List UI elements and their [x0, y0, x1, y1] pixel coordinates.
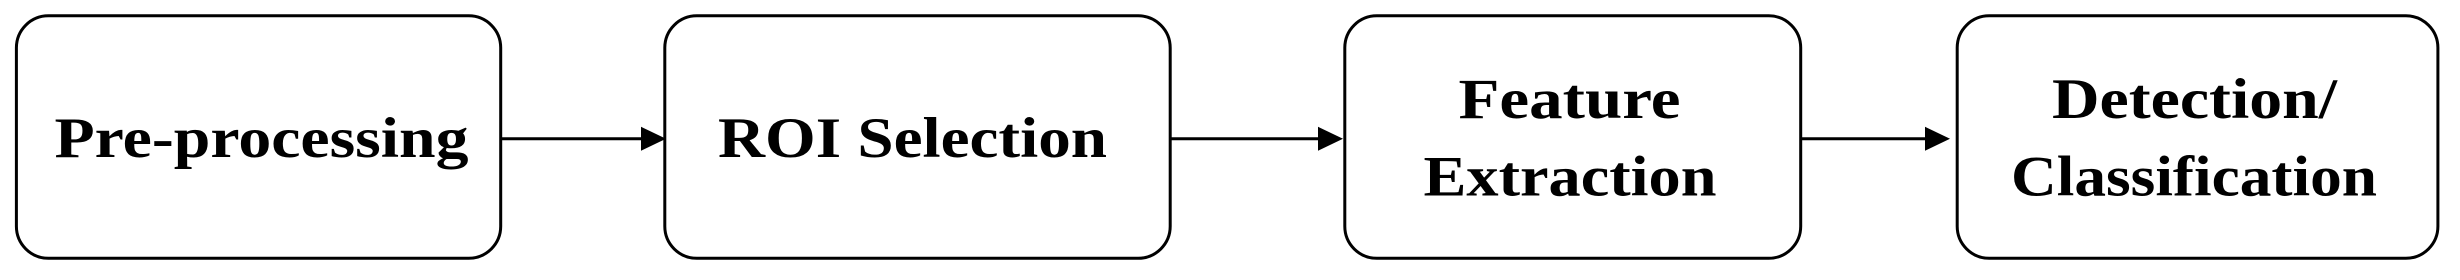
label: Extraction (line 2) [1424, 146, 1717, 209]
svg-text:Extraction: Extraction [1424, 146, 1717, 209]
arrow 2 head [1318, 127, 1343, 151]
arrow 1 shaft (box 1 to box 2) [502, 137, 643, 140]
label: Detection/ (line 1) [2052, 68, 2338, 131]
arrow 1 head [641, 127, 666, 151]
box 1: Pre-processing [16, 16, 500, 258]
svg-text:Pre-processing: Pre-processing [55, 107, 469, 170]
box 3: Feature Extraction [1345, 16, 1801, 258]
arrow 3 head [1925, 127, 1950, 151]
label: Classification (line 2) [2011, 146, 2377, 209]
svg-text:ROI Selection: ROI Selection [718, 107, 1107, 170]
arrow 3 shaft (box 3 to box 4) [1802, 137, 1927, 140]
box 2: ROI Selection [665, 16, 1170, 258]
svg-text:Feature: Feature [1459, 68, 1681, 131]
box 4: Detection/Classification [1957, 16, 2438, 258]
label: ROI Selection [718, 107, 1107, 170]
label: Pre-processing [55, 107, 469, 170]
label: Feature (line 1) [1459, 68, 1681, 131]
svg-text:Detection/: Detection/ [2052, 68, 2338, 131]
svg-text:Classification: Classification [2011, 146, 2377, 209]
arrow 2 shaft (box 2 to box 3) [1171, 137, 1320, 140]
